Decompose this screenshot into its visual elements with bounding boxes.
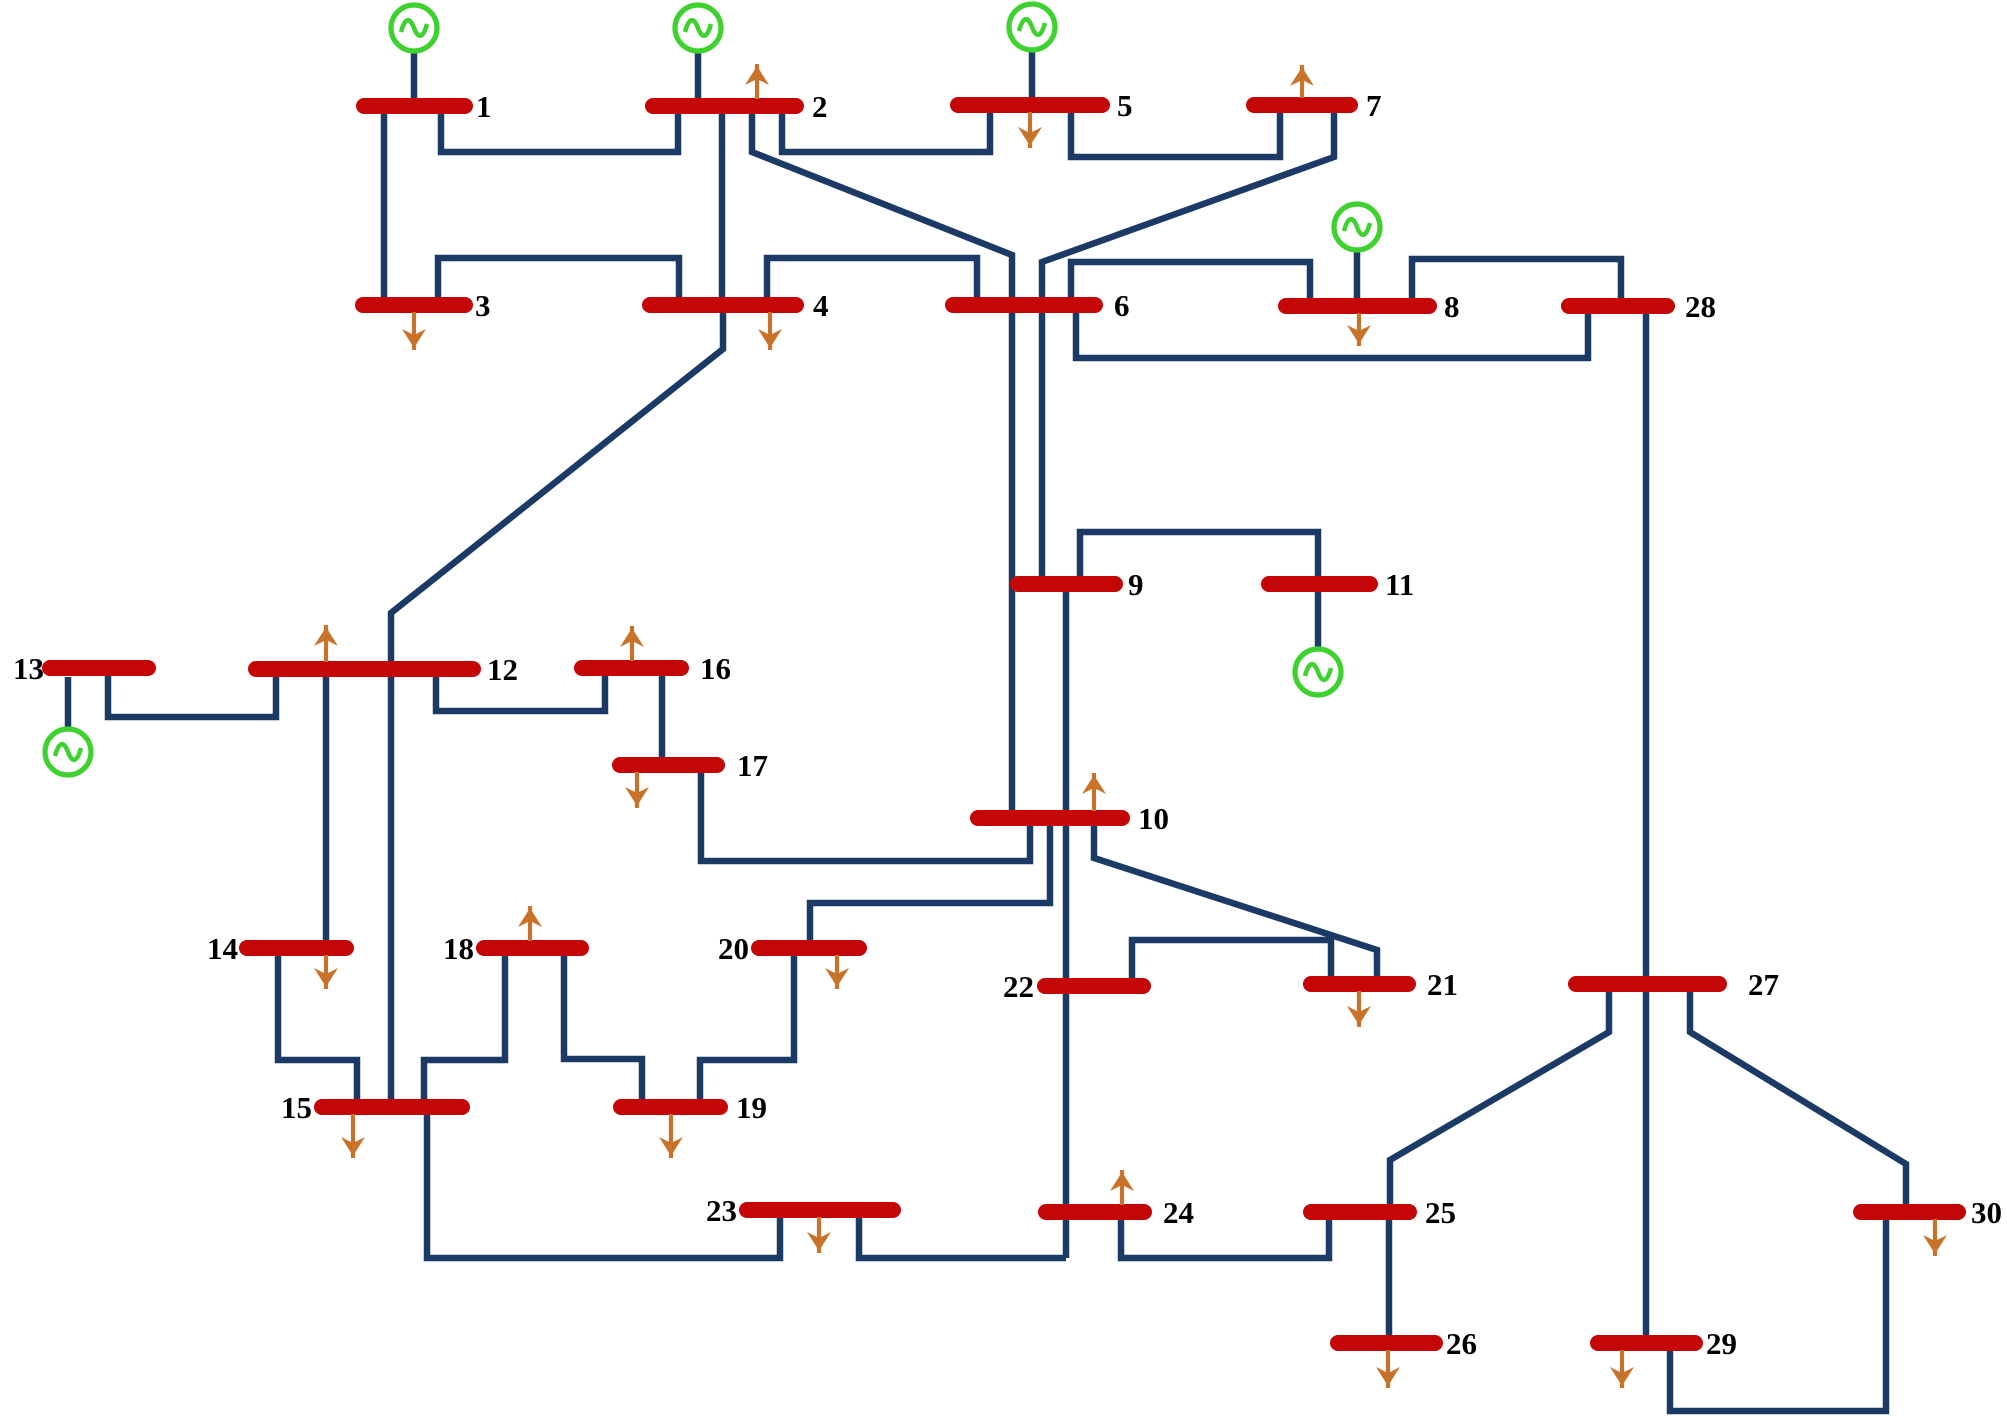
bus 15 busbar [322, 1099, 462, 1115]
generator G11 [1295, 649, 1341, 695]
svg-text:28: 28 [1685, 289, 1716, 324]
load arrow at bus 21 [1347, 991, 1371, 1027]
svg-text:15: 15 [281, 1090, 312, 1125]
svg-text:14: 14 [207, 931, 238, 966]
bus 19 busbar [621, 1099, 720, 1115]
bus 26 busbar [1338, 1335, 1435, 1351]
bus 1 busbar [364, 98, 465, 114]
load arrow at bus 23 [807, 1217, 831, 1253]
generator G13 [45, 729, 91, 775]
svg-text:22: 22 [1003, 969, 1034, 1004]
load arrow at bus 19 [659, 1114, 683, 1158]
svg-text:4: 4 [813, 288, 829, 323]
svg-text:3: 3 [475, 288, 491, 323]
wire 9-11 [1080, 532, 1318, 579]
generation arrow at bus 18 [518, 906, 542, 941]
wire 2-5 [782, 105, 990, 152]
bus 5 busbar [958, 97, 1102, 113]
wire 3-4 [438, 258, 679, 305]
wire 6-10 [1009, 311, 1016, 818]
wire 2-4 [719, 106, 726, 305]
generator lead G2 [695, 52, 702, 106]
bus 21 busbar [1311, 976, 1408, 992]
wire 23-24 [859, 1216, 1066, 1258]
generator lead G11 [1315, 591, 1322, 649]
wire 28-27 [1643, 310, 1650, 984]
wire 1-2 [441, 106, 678, 152]
bus 13 busbar [50, 660, 148, 676]
wire 4-12 and 12-15 [391, 311, 723, 1107]
load arrow at bus 30 [1923, 1219, 1947, 1256]
wire 25-26 [1386, 1218, 1393, 1343]
wire 24-25 [1121, 1212, 1329, 1258]
svg-text:18: 18 [443, 931, 474, 966]
svg-text:1: 1 [476, 89, 492, 124]
bus 7 busbar [1254, 97, 1350, 113]
wire 4-6 [767, 258, 977, 305]
wire 17-10 [701, 771, 1030, 861]
svg-text:29: 29 [1706, 1326, 1737, 1361]
bus 25 busbar [1311, 1204, 1409, 1220]
bus 29 busbar [1598, 1335, 1695, 1351]
generator lead G1 [411, 52, 418, 106]
wire 29-30 [1670, 1217, 1886, 1411]
bus 12 busbar [256, 661, 473, 677]
load arrow at bus 8 [1347, 313, 1371, 346]
generator lead G13 [65, 677, 72, 729]
generation arrow at bus 7 [1290, 65, 1314, 98]
wire 16-17 [659, 672, 666, 765]
generator G8 [1334, 204, 1380, 250]
svg-text:5: 5 [1117, 88, 1133, 123]
wire 2-6 [752, 106, 1012, 305]
load arrow at bus 14 [314, 955, 338, 989]
svg-text:19: 19 [736, 1090, 767, 1125]
load arrow at bus 26 [1376, 1350, 1400, 1388]
bus 17 busbar [620, 757, 717, 773]
svg-text:27: 27 [1748, 967, 1779, 1002]
svg-text:11: 11 [1385, 567, 1414, 602]
svg-text:20: 20 [718, 931, 749, 966]
svg-text:23: 23 [706, 1193, 737, 1228]
svg-text:16: 16 [700, 651, 731, 686]
svg-text:24: 24 [1163, 1195, 1194, 1230]
load arrow at bus 15 [341, 1114, 365, 1158]
bus 27 busbar [1576, 976, 1719, 992]
wire 6-9 [1039, 311, 1046, 584]
wire 8-28 [1412, 259, 1621, 306]
bus 16 busbar [582, 660, 681, 676]
wire 12-13 [108, 675, 276, 717]
generation arrow at bus 12 [314, 625, 338, 662]
svg-text:25: 25 [1425, 1195, 1456, 1230]
load arrow at bus 3 [402, 312, 426, 350]
wire 10-20 [810, 824, 1050, 948]
bus 6 busbar [953, 297, 1095, 313]
bus 10 busbar [978, 810, 1122, 826]
load arrow at bus 17 [625, 772, 649, 808]
generation arrow at bus 2 [745, 64, 769, 99]
load arrow at bus 5 [1018, 112, 1042, 148]
generator G1 [391, 5, 437, 51]
bus 3 busbar [363, 297, 465, 313]
generator G2 [675, 5, 721, 51]
svg-text:17: 17 [737, 748, 768, 783]
svg-text:12: 12 [487, 652, 518, 687]
bus 4 busbar [650, 297, 796, 313]
wire 15-23 [427, 1113, 780, 1258]
wire 10-21 [1094, 824, 1377, 984]
bus 2 busbar [653, 98, 796, 114]
wire 9-10-22-24 [1063, 589, 1070, 1258]
svg-text:7: 7 [1366, 88, 1382, 123]
generator G5 [1009, 4, 1055, 50]
svg-text:21: 21 [1427, 967, 1458, 1002]
bus 14 busbar [247, 940, 346, 956]
wire 7-6 [1042, 105, 1334, 305]
wire 5-7 [1071, 105, 1280, 157]
bus 20 busbar [759, 940, 859, 956]
wire 27-29 [1643, 988, 1650, 1343]
wire 27-30 [1690, 990, 1906, 1211]
svg-text:13: 13 [13, 651, 44, 686]
load arrow at bus 20 [825, 955, 849, 989]
wire 6-8 [1071, 262, 1310, 306]
svg-text:26: 26 [1446, 1326, 1477, 1361]
generation arrow at bus 16 [620, 626, 644, 661]
generator lead G5 [1029, 52, 1036, 105]
bus 30 busbar [1861, 1204, 1958, 1220]
wire 18-19 [564, 954, 642, 1107]
wire 22-21 [1132, 940, 1331, 984]
wire 12-16 [436, 672, 605, 711]
wire 19-20 [700, 948, 794, 1107]
bus 28 busbar [1569, 298, 1667, 314]
generation arrow at bus 24 [1110, 1170, 1134, 1205]
svg-text:6: 6 [1114, 288, 1130, 323]
load arrow at bus 4 [758, 312, 782, 350]
bus 24 busbar [1046, 1204, 1144, 1220]
wire 18-15 [424, 954, 505, 1107]
wire 6-28 [1076, 310, 1588, 358]
bus 11 busbar [1269, 576, 1370, 592]
wire 12-14 [323, 675, 330, 948]
bus 18 busbar [484, 940, 581, 956]
wire 25-27 [1390, 988, 1609, 1206]
svg-text:9: 9 [1128, 567, 1144, 602]
bus 9 busbar [1018, 576, 1115, 592]
load arrow at bus 29 [1610, 1350, 1634, 1388]
bus 22 busbar [1045, 978, 1143, 994]
svg-text:2: 2 [812, 89, 828, 124]
svg-text:8: 8 [1444, 289, 1460, 324]
wire 1-3 [381, 106, 388, 305]
svg-text:30: 30 [1971, 1195, 2002, 1230]
generator lead G8 [1354, 252, 1361, 306]
bus 8 busbar [1286, 298, 1429, 314]
generation arrow at bus 10 [1082, 773, 1106, 811]
svg-text:10: 10 [1138, 801, 1169, 836]
bus 23 busbar [747, 1202, 893, 1218]
wire 14-15 [278, 954, 357, 1107]
